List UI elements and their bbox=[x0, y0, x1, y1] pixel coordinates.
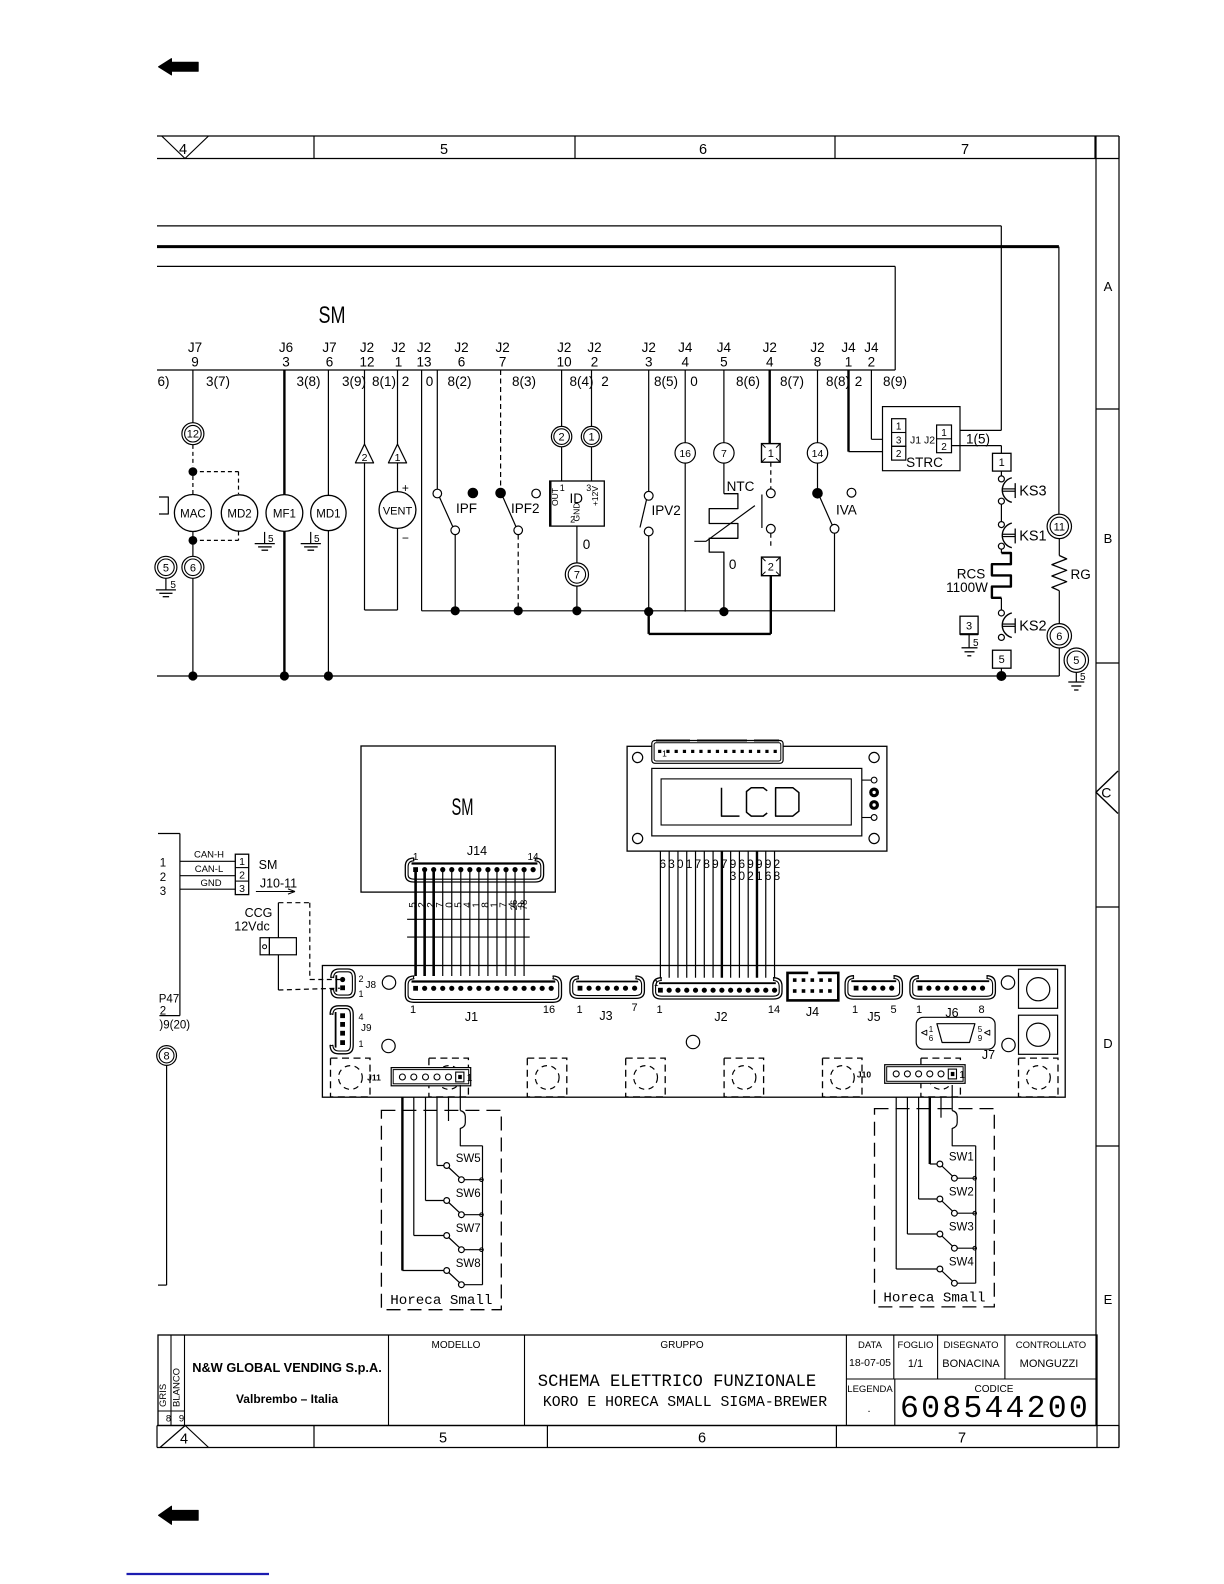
connector J1 bbox=[405, 976, 561, 1024]
svg-text:2: 2 bbox=[559, 432, 565, 444]
svg-text:1: 1 bbox=[768, 448, 774, 460]
svg-text:P47: P47 bbox=[159, 994, 179, 1006]
connector J5 bbox=[845, 976, 902, 1024]
svg-text:8: 8 bbox=[703, 857, 710, 871]
pins LCD backlight bbox=[862, 777, 879, 820]
svg-text:3(9): 3(9) bbox=[342, 374, 366, 389]
svg-text:8(9): 8(9) bbox=[883, 374, 907, 389]
wire J7.9 to MAC bbox=[192, 370, 194, 423]
svg-text:STRC: STRC bbox=[906, 455, 943, 470]
motor MD1 bbox=[311, 370, 346, 676]
connector J10 bbox=[857, 1065, 965, 1084]
junction bbox=[324, 671, 333, 680]
connector J4 bbox=[788, 971, 839, 1019]
sensor ID bbox=[550, 447, 605, 526]
wire ID GND bbox=[577, 526, 590, 563]
hole bbox=[382, 976, 395, 989]
svg-text:SM: SM bbox=[452, 794, 474, 821]
terminal 2 bbox=[762, 557, 781, 576]
svg-text:7: 7 bbox=[631, 1002, 637, 1014]
svg-text:MD1: MD1 bbox=[316, 509, 340, 521]
svg-text:8: 8 bbox=[978, 1004, 984, 1016]
junction bbox=[719, 607, 728, 616]
switch SW7 bbox=[444, 1223, 484, 1253]
wire J4.2 to STRC bbox=[871, 370, 891, 439]
switch SW6 bbox=[444, 1188, 484, 1218]
svg-text:6: 6 bbox=[659, 857, 666, 871]
svg-text:J6: J6 bbox=[279, 340, 293, 355]
svg-text:5: 5 bbox=[973, 638, 979, 649]
terminal 5 square bbox=[993, 650, 1012, 676]
svg-text:SW6: SW6 bbox=[456, 1188, 481, 1200]
svg-text:SW4: SW4 bbox=[949, 1257, 975, 1269]
svg-text:11: 11 bbox=[1054, 521, 1065, 533]
junction bbox=[188, 671, 197, 680]
wire feed bbox=[437, 1097, 444, 1165]
svg-text:J7: J7 bbox=[188, 340, 202, 355]
svg-text:−: − bbox=[402, 531, 409, 545]
display LCD module bbox=[627, 746, 887, 851]
svg-text:1: 1 bbox=[756, 869, 763, 883]
svg-text:1: 1 bbox=[359, 1039, 364, 1049]
svg-text:E: E bbox=[1104, 1292, 1113, 1307]
svg-text:J7: J7 bbox=[982, 1048, 995, 1062]
svg-text:8: 8 bbox=[164, 1050, 170, 1062]
connector J11 bbox=[367, 1068, 473, 1086]
wire feed bbox=[896, 1097, 937, 1269]
node P47 bbox=[159, 994, 190, 1032]
node 5 with ground bbox=[155, 556, 177, 596]
svg-text:1: 1 bbox=[896, 422, 902, 433]
svg-text:GRIS: GRIS bbox=[158, 1384, 169, 1407]
svg-text:SM: SM bbox=[319, 302, 346, 329]
svg-text:1: 1 bbox=[686, 857, 693, 871]
wire feed bbox=[930, 1097, 937, 1164]
svg-text:IPV2: IPV2 bbox=[652, 503, 681, 518]
navigation arrow bottom-left bbox=[159, 1506, 199, 1524]
junction bbox=[996, 671, 1006, 681]
wire number labels bbox=[157, 374, 907, 389]
svg-text:FOGLIO: FOGLIO bbox=[898, 1340, 934, 1351]
connector J3 bbox=[570, 976, 645, 1023]
svg-text:Horeca Small: Horeca Small bbox=[883, 1290, 985, 1306]
svg-text:2: 2 bbox=[160, 1006, 166, 1018]
svg-text:9: 9 bbox=[978, 1034, 983, 1043]
wire VENT return bbox=[365, 609, 398, 611]
svg-text:J10-11: J10-11 bbox=[260, 877, 297, 891]
wire CAN-H bbox=[180, 850, 235, 862]
wire feed bbox=[940, 1097, 942, 1118]
svg-text:8: 8 bbox=[814, 355, 822, 370]
svg-text:8(2): 8(2) bbox=[447, 374, 471, 389]
wire J2.13 collector bbox=[422, 370, 835, 611]
junction bbox=[189, 467, 198, 476]
svg-text:MONGUZZI: MONGUZZI bbox=[1020, 1358, 1079, 1370]
svg-text:1: 1 bbox=[845, 355, 853, 370]
svg-text:MODELLO: MODELLO bbox=[432, 1340, 481, 1351]
svg-text:3: 3 bbox=[896, 435, 902, 446]
motor VENT bbox=[379, 481, 416, 610]
svg-text:9: 9 bbox=[712, 857, 719, 871]
svg-text:5: 5 bbox=[314, 534, 320, 545]
junction bbox=[514, 606, 523, 615]
svg-text:4: 4 bbox=[179, 142, 187, 158]
svg-text:0: 0 bbox=[677, 857, 684, 871]
resistor RG bbox=[1052, 539, 1091, 624]
svg-text:SW1: SW1 bbox=[949, 1152, 974, 1164]
svg-text:SW3: SW3 bbox=[949, 1222, 974, 1234]
svg-text:J1: J1 bbox=[465, 1010, 478, 1024]
svg-text:6: 6 bbox=[190, 562, 196, 574]
switch SW8 bbox=[444, 1258, 483, 1288]
wire feed bbox=[448, 1097, 450, 1121]
svg-text:IPF: IPF bbox=[456, 501, 477, 516]
junction bbox=[451, 606, 460, 615]
resistor RCS 1100W bbox=[946, 549, 1011, 610]
svg-text:8(5): 8(5) bbox=[654, 374, 678, 389]
svg-text:1: 1 bbox=[941, 428, 947, 439]
svg-text:1: 1 bbox=[852, 1004, 858, 1016]
switch IVA bbox=[812, 488, 857, 612]
switch IPF2 bbox=[495, 370, 540, 611]
svg-text:16: 16 bbox=[543, 1004, 555, 1016]
svg-text:DISEGNATO: DISEGNATO bbox=[943, 1340, 998, 1351]
svg-text:2: 2 bbox=[362, 452, 368, 464]
node 6 bbox=[182, 556, 204, 578]
svg-text:3: 3 bbox=[160, 886, 166, 898]
svg-text:A: A bbox=[1104, 279, 1113, 294]
svg-text:8(8): 8(8) bbox=[826, 374, 850, 389]
svg-text:8(1): 8(1) bbox=[372, 374, 396, 389]
node 7 single bbox=[714, 370, 734, 463]
svg-text:14: 14 bbox=[812, 448, 824, 460]
wire common to bus bbox=[460, 1085, 482, 1285]
svg-text:6: 6 bbox=[698, 1431, 706, 1447]
wire top bus thin to STRC bbox=[157, 226, 1001, 431]
svg-text:2: 2 bbox=[855, 374, 863, 389]
node 6 right bbox=[1047, 624, 1071, 648]
svg-text:J9: J9 bbox=[361, 1023, 372, 1034]
svg-text:5: 5 bbox=[890, 1004, 896, 1016]
wire feed bbox=[414, 1097, 444, 1235]
svg-text:J4: J4 bbox=[717, 340, 732, 355]
relay footprint F6 bbox=[823, 1058, 863, 1097]
svg-text:1: 1 bbox=[588, 432, 594, 444]
ground MF1 bbox=[255, 532, 275, 550]
svg-text:IVA: IVA bbox=[836, 503, 857, 518]
svg-text:KS2: KS2 bbox=[1019, 618, 1046, 634]
module SM middle bbox=[361, 746, 555, 892]
svg-text:3: 3 bbox=[239, 883, 245, 895]
svg-text:3: 3 bbox=[645, 355, 653, 370]
display LCD screen bbox=[652, 768, 862, 836]
svg-text:10: 10 bbox=[557, 355, 572, 370]
svg-text:J7: J7 bbox=[322, 340, 336, 355]
wire dashed MD2 to junction bbox=[193, 539, 239, 541]
wire feed bbox=[402, 1097, 444, 1270]
label 1(5) bbox=[966, 431, 990, 446]
svg-text:5: 5 bbox=[163, 562, 169, 574]
wire feed bbox=[426, 1097, 444, 1200]
svg-text:J2: J2 bbox=[417, 340, 431, 355]
svg-text:3: 3 bbox=[282, 355, 290, 370]
svg-text:1: 1 bbox=[410, 1004, 416, 1016]
svg-text:RG: RG bbox=[1071, 567, 1091, 582]
svg-text:8(7): 8(7) bbox=[780, 374, 804, 389]
switch SW2 bbox=[937, 1187, 977, 1217]
relay K2 outline bbox=[1019, 1015, 1058, 1054]
svg-text:.: . bbox=[867, 1403, 870, 1415]
svg-text:J3: J3 bbox=[599, 1009, 612, 1023]
svg-text:J2: J2 bbox=[810, 340, 824, 355]
svg-text:J2: J2 bbox=[763, 340, 777, 355]
connector CAN clipped box bbox=[158, 834, 180, 1016]
node 11 bbox=[1047, 514, 1071, 538]
wire MAC to node 6 bbox=[192, 532, 194, 557]
svg-text:J2: J2 bbox=[714, 1010, 727, 1024]
connector LCD header bbox=[652, 741, 783, 764]
svg-text:)9(20): )9(20) bbox=[159, 1020, 190, 1032]
node 5 with ground right bbox=[1064, 648, 1088, 690]
relay K1 outline bbox=[1019, 969, 1058, 1008]
switch SW5 bbox=[444, 1153, 484, 1183]
svg-text:KS1: KS1 bbox=[1019, 529, 1046, 545]
svg-text:2: 2 bbox=[768, 561, 774, 573]
svg-text:KS3: KS3 bbox=[1019, 483, 1046, 499]
svg-text:SW7: SW7 bbox=[456, 1223, 481, 1235]
svg-text:J5: J5 bbox=[867, 1010, 880, 1024]
svg-text:J8: J8 bbox=[366, 980, 377, 991]
terminal 3 with ground bbox=[960, 616, 979, 656]
connector J7 DSUB bbox=[916, 1017, 995, 1062]
svg-text:SW8: SW8 bbox=[456, 1258, 481, 1270]
svg-text:BLANCO: BLANCO bbox=[172, 1368, 183, 1407]
connector J9 bbox=[330, 1006, 372, 1054]
wire CAN-L bbox=[180, 864, 235, 876]
wire dashed CCG to J8.1 bbox=[278, 988, 340, 990]
wire GND bbox=[180, 878, 235, 889]
svg-text:B: B bbox=[1104, 531, 1113, 546]
svg-text:CONTROLLATO: CONTROLLATO bbox=[1016, 1340, 1086, 1351]
svg-text:12: 12 bbox=[359, 355, 374, 370]
svg-text:J14: J14 bbox=[467, 844, 487, 858]
wire node7 to collector bbox=[576, 586, 578, 611]
svg-text:1: 1 bbox=[656, 1004, 662, 1016]
relay footprint F1 bbox=[331, 1058, 371, 1097]
thermistor NTC bbox=[694, 463, 755, 611]
wire dashed CCG to J8.2 bbox=[278, 903, 340, 980]
svg-text:9: 9 bbox=[191, 355, 199, 370]
svg-text:4: 4 bbox=[359, 1012, 364, 1022]
connector J2 board bbox=[653, 978, 782, 1024]
wire common to bus bbox=[952, 1085, 976, 1283]
svg-text:5: 5 bbox=[439, 1431, 447, 1447]
relay footprint F4 bbox=[626, 1058, 666, 1097]
svg-text:1: 1 bbox=[359, 989, 364, 999]
node 7 bbox=[565, 563, 588, 586]
terminal 1 square bbox=[993, 453, 1012, 471]
svg-text:J4: J4 bbox=[806, 1005, 819, 1019]
svg-text:CAN-H: CAN-H bbox=[194, 850, 224, 861]
svg-text:1: 1 bbox=[239, 856, 245, 868]
svg-text:14: 14 bbox=[527, 852, 539, 863]
wire bbox=[1000, 504, 1002, 521]
svg-text:16: 16 bbox=[679, 448, 691, 460]
svg-text:5: 5 bbox=[720, 355, 728, 370]
svg-text:J2: J2 bbox=[557, 340, 571, 355]
svg-text:4: 4 bbox=[180, 1432, 188, 1448]
triangle marker 2 bbox=[355, 370, 373, 610]
svg-text:2: 2 bbox=[747, 869, 754, 883]
node 1 bbox=[581, 370, 601, 447]
svg-text:3(7): 3(7) bbox=[206, 374, 230, 389]
svg-text:0: 0 bbox=[426, 374, 434, 389]
wire STRC J2.2 to terminal bbox=[952, 446, 1002, 454]
svg-text:3: 3 bbox=[730, 869, 737, 883]
svg-text:2: 2 bbox=[359, 974, 364, 984]
node 14 wire bbox=[807, 370, 827, 489]
wire node6 to bus bbox=[1058, 648, 1060, 676]
svg-text:1: 1 bbox=[413, 852, 419, 863]
thermostat KS3 bbox=[998, 471, 1046, 504]
connector J8 bbox=[331, 969, 377, 999]
svg-text:J2: J2 bbox=[391, 340, 405, 355]
svg-text:C: C bbox=[1101, 784, 1111, 800]
svg-text:CAN-L: CAN-L bbox=[195, 864, 224, 875]
wire terminal 2 return thick bbox=[649, 576, 771, 634]
svg-text:3: 3 bbox=[966, 621, 972, 633]
svg-text:J10: J10 bbox=[857, 1070, 871, 1080]
svg-text:6: 6 bbox=[699, 142, 707, 158]
svg-text:J2: J2 bbox=[587, 340, 601, 355]
svg-text:5: 5 bbox=[268, 534, 274, 545]
svg-text:6: 6 bbox=[326, 355, 334, 370]
junction bbox=[189, 536, 198, 545]
switch door contact bbox=[762, 462, 775, 548]
svg-text:8(4): 8(4) bbox=[569, 374, 593, 389]
module SM top box bbox=[157, 266, 895, 370]
svg-text:7: 7 bbox=[721, 448, 727, 460]
svg-text:0: 0 bbox=[729, 557, 737, 572]
svg-text:1: 1 bbox=[160, 858, 166, 870]
junction bbox=[280, 671, 289, 680]
svg-text:VENT: VENT bbox=[383, 506, 413, 518]
svg-text:1: 1 bbox=[560, 483, 565, 493]
svg-text:1: 1 bbox=[576, 1004, 582, 1016]
svg-text:2: 2 bbox=[601, 374, 609, 389]
terminal 1 bbox=[762, 444, 781, 463]
wire dashed node12 to junction bbox=[192, 445, 194, 466]
wire feed bbox=[907, 1097, 937, 1234]
svg-text:5: 5 bbox=[170, 580, 176, 591]
wire J4.1 thick to STRC bbox=[849, 370, 892, 452]
clipped component left edge bbox=[159, 497, 168, 514]
svg-text:6: 6 bbox=[765, 869, 772, 883]
svg-text:1: 1 bbox=[654, 978, 659, 988]
svg-text:3(8): 3(8) bbox=[296, 374, 320, 389]
motor MF1 with thick wire bbox=[266, 370, 303, 676]
hole bbox=[1002, 1038, 1015, 1051]
svg-text:OUT: OUT bbox=[550, 488, 560, 506]
svg-text:GRUPPO: GRUPPO bbox=[660, 1340, 704, 1351]
svg-text:IPF2: IPF2 bbox=[511, 501, 540, 516]
svg-text:N&W GLOBAL VENDING S.p.A.: N&W GLOBAL VENDING S.p.A. bbox=[192, 1360, 382, 1375]
svg-text:7: 7 bbox=[721, 857, 728, 871]
svg-text:J1 J2: J1 J2 bbox=[910, 434, 935, 446]
svg-text:J4: J4 bbox=[864, 340, 879, 355]
svg-text:J4: J4 bbox=[678, 340, 693, 355]
svg-text:7: 7 bbox=[958, 1431, 966, 1447]
relay footprint F8 bbox=[1019, 1058, 1059, 1097]
ground MD1 bbox=[301, 532, 321, 550]
node 8 wire bbox=[157, 1046, 177, 1286]
svg-text:7: 7 bbox=[574, 569, 580, 581]
svg-text:DATA: DATA bbox=[858, 1340, 883, 1351]
svg-text:5: 5 bbox=[1073, 655, 1079, 667]
svg-text:SCHEMA ELETTRICO FUNZIONALE: SCHEMA ELETTRICO FUNZIONALE bbox=[538, 1373, 816, 1392]
svg-text:2: 2 bbox=[160, 872, 166, 884]
svg-text:D: D bbox=[1103, 1036, 1112, 1051]
svg-text:CCG: CCG bbox=[245, 906, 273, 920]
svg-text:1: 1 bbox=[467, 1073, 473, 1084]
switch IPF bbox=[433, 370, 478, 611]
node 2 bbox=[551, 370, 571, 447]
svg-text:18-07-05: 18-07-05 bbox=[849, 1357, 891, 1369]
svg-text:MD2: MD2 bbox=[227, 509, 251, 521]
svg-text:2: 2 bbox=[941, 442, 947, 453]
pin labels SM top connectors bbox=[188, 340, 879, 370]
connector J14 bbox=[405, 852, 543, 882]
svg-text:1: 1 bbox=[395, 452, 401, 464]
svg-text:J2: J2 bbox=[642, 340, 656, 355]
svg-text:7: 7 bbox=[961, 142, 969, 158]
svg-text:0: 0 bbox=[583, 537, 591, 552]
hole bbox=[1001, 976, 1014, 989]
svg-text:J2: J2 bbox=[495, 340, 509, 355]
svg-text:13: 13 bbox=[416, 355, 431, 370]
navigation arrow top-left bbox=[159, 59, 199, 75]
svg-text:2: 2 bbox=[896, 449, 902, 460]
svg-text:7: 7 bbox=[694, 857, 701, 871]
svg-text:8: 8 bbox=[166, 1414, 171, 1425]
motor MAC bbox=[174, 476, 211, 532]
svg-text:J11: J11 bbox=[367, 1073, 381, 1083]
wire dashed junction to MD2 bbox=[193, 472, 239, 494]
svg-text:6: 6 bbox=[929, 1034, 934, 1043]
hole bbox=[382, 1039, 395, 1052]
svg-text:7: 7 bbox=[499, 355, 507, 370]
svg-text:Valbrembo – Italia: Valbrembo – Italia bbox=[236, 1392, 338, 1406]
svg-text:SW2: SW2 bbox=[949, 1187, 974, 1199]
wire feed bbox=[919, 1097, 938, 1199]
svg-text:1: 1 bbox=[959, 1070, 965, 1081]
board CPU outline bbox=[322, 966, 1065, 1098]
svg-text:0: 0 bbox=[690, 374, 698, 389]
svg-text:12Vdc: 12Vdc bbox=[234, 920, 269, 934]
node 12 bbox=[182, 423, 204, 445]
svg-text:NTC: NTC bbox=[727, 479, 755, 494]
svg-text:12: 12 bbox=[187, 429, 199, 441]
node 16 wire bbox=[675, 370, 695, 612]
svg-text:78: 78 bbox=[519, 900, 530, 911]
svg-text:8: 8 bbox=[773, 869, 780, 883]
thermostat KS1 bbox=[998, 522, 1046, 550]
wire J2.4 thick to terminal 1 bbox=[769, 370, 771, 444]
svg-text:6: 6 bbox=[458, 355, 466, 370]
wire top bus thick to node 11 bbox=[157, 247, 1059, 515]
svg-text:SW5: SW5 bbox=[456, 1153, 481, 1165]
enclosure SW8 bbox=[381, 1110, 501, 1309]
